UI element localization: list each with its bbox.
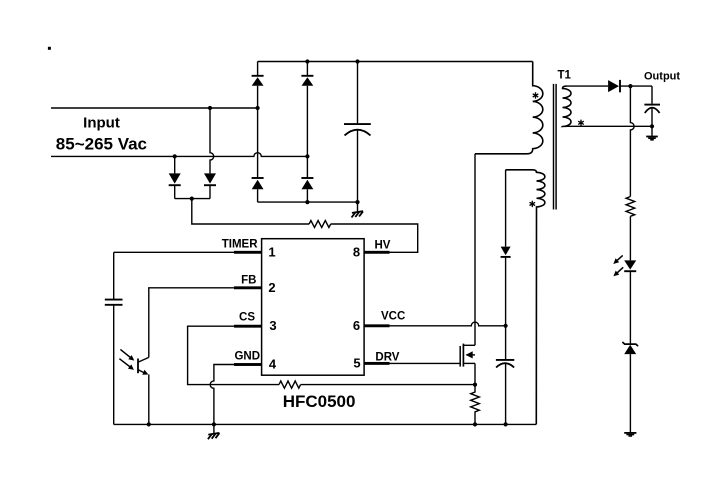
wire left protection diode top lead: [174, 156, 176, 173]
wire AC input line (top): [51, 107, 258, 109]
pin 1 TIMER bar: [234, 251, 262, 254]
wire FB pin to opto collector: [149, 288, 234, 358]
wire TIMER pin to left rail: [114, 251, 234, 253]
wire bridge right leg segments: [306, 62, 308, 203]
wire joining protection diode cathodes: [175, 198, 210, 200]
ground (chassis, primary DC bus): [352, 202, 364, 217]
wire secondary bottom return: [567, 125, 653, 127]
auxiliary winding dot mark: [530, 201, 536, 207]
diode D1 (bridge top-left, pointing up): [252, 76, 264, 86]
zener diode ZD1 (pointing up): [622, 342, 638, 354]
node: VCC junction: [504, 324, 508, 328]
diode D6 (protection, right, pointing down): [204, 173, 216, 198]
svg-text:6: 6: [353, 318, 360, 333]
svg-text:HV: HV: [375, 240, 391, 252]
transformer T1 secondary winding: [563, 86, 572, 126]
diode D3 (bridge bottom-left, pointing up): [252, 178, 264, 189]
wire AC input line (bottom, hops over bridge left leg): [51, 153, 307, 157]
node: bridge right leg on bottom bus: [305, 200, 309, 204]
node: bulk cap on top bus: [355, 59, 359, 63]
transformer T1 auxiliary winding: [506, 170, 545, 425]
label Input 85~265 Vac: [56, 115, 147, 154]
svg-text:CS: CS: [239, 311, 255, 323]
node: opto emitter on ground wire: [147, 422, 151, 426]
MOSFET Q1: [460, 344, 475, 367]
pin 6 VCC bar: [364, 324, 390, 327]
node: bottom input joins bridge right leg: [305, 154, 309, 158]
secondary winding dot mark: [578, 120, 584, 126]
transformer T1 primary winding: [475, 62, 543, 154]
pin 2 FB bar: [234, 286, 262, 289]
resistor R1 (HV startup): [309, 221, 331, 228]
ground (secondary earth): [624, 433, 636, 436]
node: source / CS sense: [473, 383, 477, 387]
wire CS resistor to MOSFET source: [301, 384, 475, 386]
primary winding dot mark: [533, 92, 539, 98]
svg-text:DRV: DRV: [375, 351, 399, 363]
ground (output earth): [646, 126, 658, 140]
optocoupler phototransistor Q2: [138, 357, 149, 424]
svg-text:1: 1: [268, 244, 275, 259]
wire left rail lower: [113, 305, 115, 424]
wire opto LED to zener: [629, 271, 631, 343]
wire drain to primary: [474, 154, 476, 345]
node: GND pin on bottom rail: [212, 422, 216, 426]
svg-text:GND: GND: [234, 350, 260, 362]
wire resistor to opto LED: [629, 216, 631, 260]
wire VCC diode to VCC node: [505, 257, 507, 326]
resistor R3 (CS filter): [279, 381, 301, 388]
ground (chassis, controller): [208, 424, 220, 439]
node: top input to bridge tap: [208, 106, 212, 110]
IC U1 HFC0500 body: [262, 239, 365, 376]
capacitor C4 (output, polarized): [644, 86, 660, 126]
bridge: wire top bus: [258, 61, 533, 63]
svg-text:FB: FB: [241, 274, 256, 286]
wire CS pin loop: [188, 326, 279, 384]
capacitor C1 (bulk, polarized): [344, 62, 371, 203]
svg-text:HFC0500: HFC0500: [283, 392, 356, 411]
diode D8 (VCC rectifier, pointing down): [501, 247, 511, 257]
wire bridge left leg segments: [257, 62, 259, 203]
node: output return: [650, 124, 654, 128]
capacitor C3 (VCC, polarized): [496, 360, 514, 425]
node: top input joins bridge left leg: [256, 106, 260, 110]
diode D4 (bridge bottom-right, pointing up): [301, 178, 313, 189]
wire GND pin to ground (hops over CS wire): [210, 365, 234, 425]
wire VCC pin to aux supply (hops over drain wire): [389, 322, 506, 326]
resistor R4 (feedback upper): [626, 197, 635, 217]
resistor R2 (current sense): [471, 385, 480, 425]
svg-text:TIMER: TIMER: [222, 239, 258, 251]
wire HV startup feed (down then right to resistor): [192, 199, 309, 224]
LED (optocoupler emitter diode, pointing down): [624, 260, 636, 271]
punctuation dot: [48, 47, 51, 50]
svg-text:Input: Input: [83, 115, 120, 132]
wire feedback divider (hops over secondary return): [630, 86, 634, 196]
wire VCC node to cap: [505, 326, 507, 359]
wire zener to ground: [629, 354, 631, 432]
node: output positive: [628, 84, 632, 88]
transformer T1 core: [554, 84, 557, 210]
pin 8 HV bar: [364, 251, 390, 254]
wire DRV pin to gate: [389, 362, 460, 364]
node: sense resistor on bottom rail: [473, 422, 477, 426]
wire bottom rail: [114, 423, 537, 425]
wire resistor to HV pin 8: [331, 224, 418, 252]
svg-text:5: 5: [353, 355, 360, 370]
node: VCC cap on bottom rail: [504, 422, 508, 426]
svg-text:3: 3: [269, 318, 276, 333]
svg-text:85~265 Vac: 85~265 Vac: [56, 135, 147, 154]
wire aux winding to VCC diode: [505, 170, 507, 247]
diode D5 (protection, left, pointing down): [169, 173, 181, 198]
svg-text:2: 2: [268, 280, 275, 295]
node: bulk cap on bottom bus: [355, 200, 359, 204]
wire from top input down to right protection diode (hops over bottom line): [210, 108, 214, 173]
wire secondary top to output diode: [567, 85, 609, 87]
diode D7 (output rectifier, pointing right): [608, 80, 620, 92]
wire source to sense node: [474, 363, 476, 384]
wire bridge bottom bus: [258, 201, 358, 203]
svg-text:Output: Output: [644, 71, 680, 83]
wire output diode cathode to output cap: [620, 85, 652, 87]
LED light arrows: [613, 255, 623, 276]
pin 5 DRV bar: [364, 362, 390, 365]
node: bridge right leg on top bus: [305, 59, 309, 63]
wire left rail upper: [113, 252, 115, 299]
svg-text:8: 8: [353, 244, 360, 259]
pin 4 GND bar: [234, 363, 262, 366]
svg-text:T1: T1: [558, 70, 572, 82]
optocoupler light arrows: [119, 349, 134, 370]
pin 3 CS bar: [234, 325, 262, 328]
node: protection diode junction: [190, 197, 194, 201]
diode D2 (bridge top-right, pointing up): [301, 76, 313, 86]
capacitor C2 (timer): [105, 300, 123, 305]
svg-text:VCC: VCC: [381, 311, 405, 323]
svg-text:4: 4: [269, 357, 277, 372]
node: bottom input to protection diode: [173, 154, 177, 158]
